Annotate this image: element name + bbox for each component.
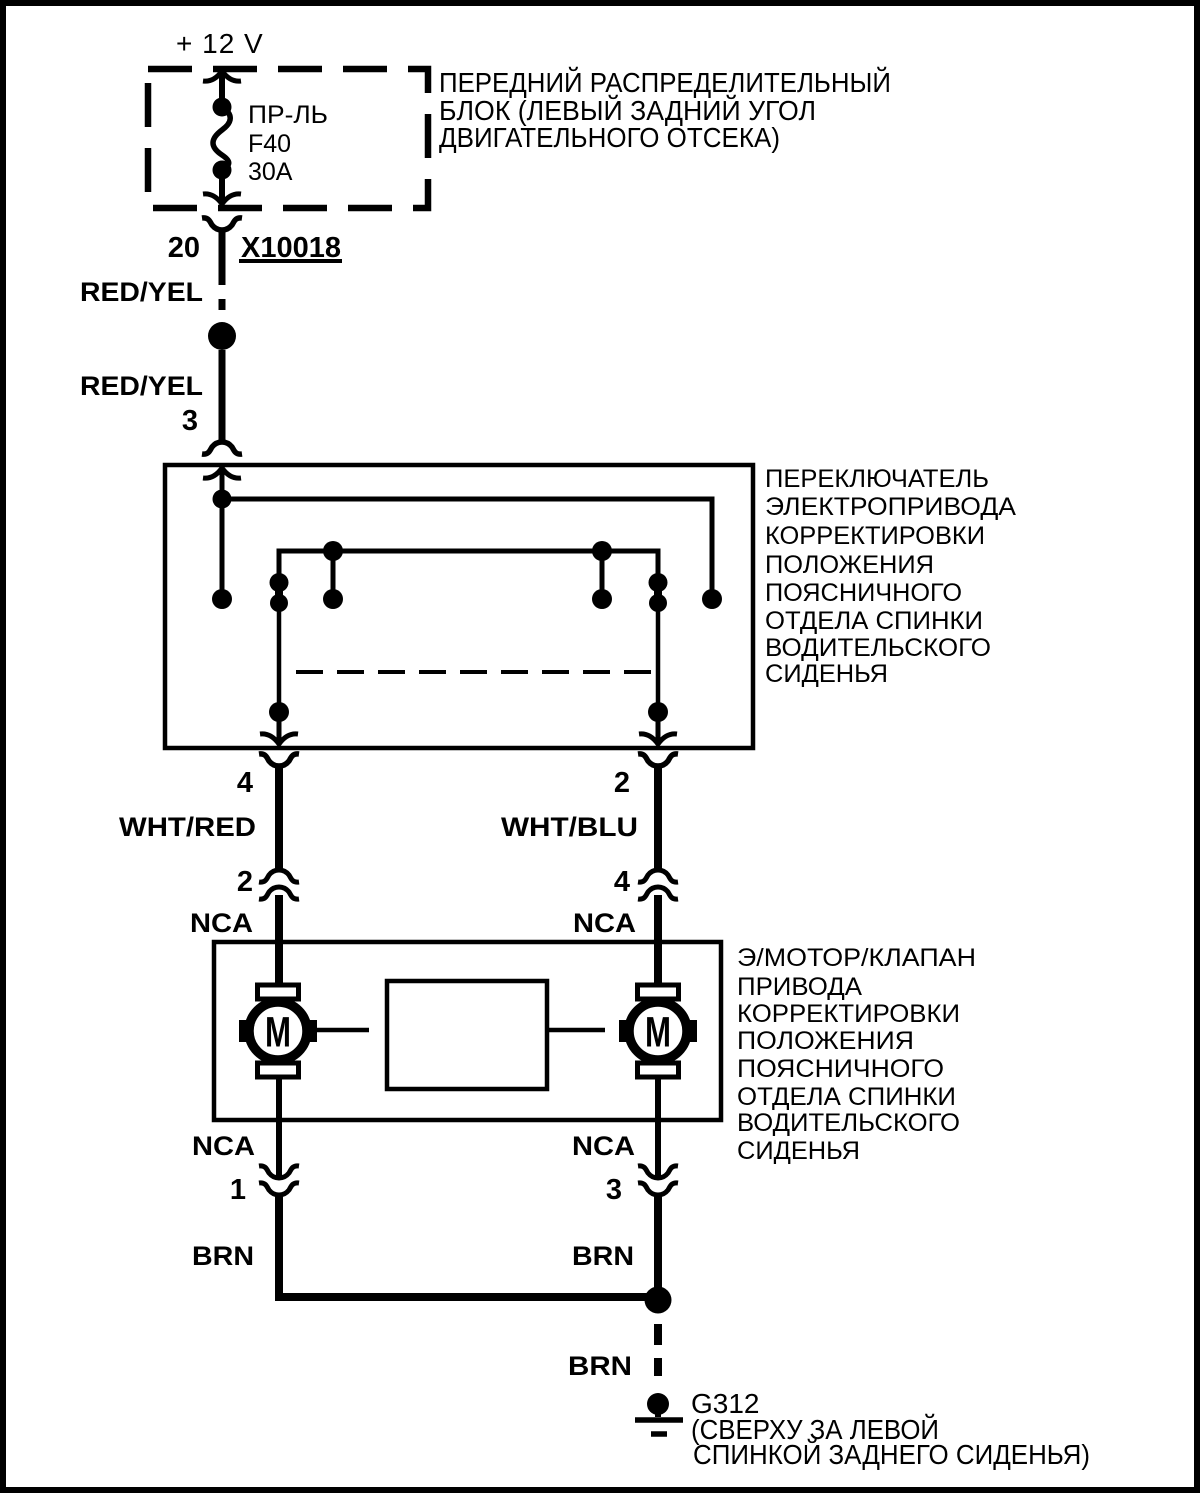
svg-text:2: 2	[237, 866, 253, 898]
contact node left inner	[323, 589, 343, 609]
node on wiper rail left	[323, 541, 343, 561]
wire to motor right	[654, 895, 662, 986]
contact node right inner	[592, 589, 612, 609]
mechanical link dashed	[296, 670, 655, 674]
wire fuse input	[219, 71, 225, 107]
connector cups pin 3	[638, 1166, 678, 1178]
svg-text:RED/YEL: RED/YEL	[80, 371, 203, 401]
motor M2 right	[619, 985, 697, 1077]
svg-text:+ 12 V: + 12 V	[176, 28, 264, 59]
svg-text:ОТДЕЛА СПИНКИ: ОТДЕЛА СПИНКИ	[737, 1083, 956, 1111]
wire valve to motor M2	[547, 1028, 605, 1033]
wire BRN right	[654, 1194, 662, 1290]
svg-text:F40: F40	[248, 130, 291, 158]
svg-text:Э/МОТОР/КЛАПАН: Э/МОТОР/КЛАПАН	[737, 944, 976, 972]
svg-text:BRN: BRN	[192, 1241, 254, 1271]
inline connector left upper half	[259, 870, 299, 882]
inline connector right lower half	[638, 887, 678, 899]
svg-text:WHT/BLU: WHT/BLU	[501, 812, 638, 842]
wire fuse output	[219, 170, 225, 204]
wire switch exit right	[656, 611, 661, 703]
wire motor M2 exit	[655, 1077, 661, 1177]
svg-text:ПЕРЕДНИЙ РАСПРЕДЕЛИТЕЛЬНЫЙ: ПЕРЕДНИЙ РАСПРЕДЕЛИТЕЛЬНЫЙ	[439, 67, 891, 98]
wire wiper rail	[279, 551, 658, 575]
svg-text:ПОЛОЖЕНИЯ: ПОЛОЖЕНИЯ	[765, 551, 934, 579]
wire switch entry	[220, 468, 225, 492]
fuse box (front power distribution box, dashed)	[148, 69, 428, 208]
svg-text:КОРРЕКТИРОВКИ: КОРРЕКТИРОВКИ	[765, 522, 985, 550]
wiper contact right	[649, 573, 668, 612]
svg-text:NCA: NCA	[190, 908, 253, 938]
contact node left outer	[212, 589, 232, 609]
wire contact stub left	[220, 499, 225, 591]
svg-text:RED/YEL: RED/YEL	[80, 277, 203, 307]
wire exit left lower	[277, 720, 282, 743]
wire RED/YEL upper	[219, 230, 226, 310]
inline connector right upper half	[638, 870, 678, 882]
wire stub from rail left	[331, 551, 336, 590]
wiper contact left	[270, 573, 289, 612]
svg-text:3: 3	[182, 405, 198, 437]
node exit left	[269, 702, 289, 722]
connector cup at switch pin 3	[202, 442, 242, 454]
svg-text:ОТДЕЛА СПИНКИ: ОТДЕЛА СПИНКИ	[765, 607, 983, 635]
connector cups pin 1	[259, 1166, 299, 1178]
svg-text:4: 4	[614, 866, 630, 898]
svg-text:СИДЕНЬЯ: СИДЕНЬЯ	[765, 660, 888, 688]
inline connector left lower half	[259, 887, 299, 899]
svg-text:ДВИГАТЕЛЬНОГО ОТСЕКА): ДВИГАТЕЛЬНОГО ОТСЕКА)	[439, 122, 780, 153]
svg-text:NCA: NCA	[572, 1131, 635, 1161]
svg-text:NCA: NCA	[573, 908, 636, 938]
node fuse top	[213, 98, 232, 117]
fuse F40 30A element	[213, 107, 230, 170]
wire WHT/BLU	[654, 766, 662, 872]
wire RED/YEL lower	[219, 350, 226, 443]
arrow down to box bottom	[203, 194, 241, 204]
node on wiper rail right	[592, 541, 612, 561]
node switch input	[213, 490, 232, 509]
svg-text:СПИНКОЙ ЗАДНЕГО СИДЕНЬЯ): СПИНКОЙ ЗАДНЕГО СИДЕНЬЯ)	[693, 1439, 1090, 1470]
connector X10018 cup	[202, 218, 242, 230]
motor box (lumbar motor/valve unit)	[214, 942, 721, 1120]
junction node BRN	[645, 1287, 672, 1314]
wire motor M1 to valve	[317, 1028, 369, 1033]
wire rail top	[222, 499, 712, 591]
valve body rectangle	[387, 981, 547, 1089]
wire WHT/RED	[275, 766, 283, 872]
wire motor M1 exit	[276, 1077, 282, 1177]
arrow up at switch entry pin 3	[203, 468, 241, 478]
junction node splice	[208, 322, 236, 350]
arrow up into box top	[203, 71, 241, 81]
svg-text:ПЕРЕКЛЮЧАТЕЛЬ: ПЕРЕКЛЮЧАТЕЛЬ	[765, 465, 989, 493]
svg-text:2: 2	[614, 767, 630, 799]
svg-text:КОРРЕКТИРОВКИ: КОРРЕКТИРОВКИ	[737, 1000, 960, 1028]
wire switch exit left	[277, 611, 282, 703]
svg-text:BRN: BRN	[568, 1351, 632, 1381]
svg-text:ВОДИТЕЛЬСКОГО: ВОДИТЕЛЬСКОГО	[737, 1109, 960, 1137]
svg-text:30A: 30A	[248, 158, 293, 186]
connector cup below switch pin 4	[259, 754, 299, 766]
svg-text:ПОЛОЖЕНИЯ: ПОЛОЖЕНИЯ	[737, 1027, 914, 1055]
svg-text:ПРИВОДА: ПРИВОДА	[737, 973, 862, 1001]
arrow down at switch exit pin 2	[639, 734, 677, 744]
svg-text:NCA: NCA	[192, 1131, 255, 1161]
switch box (lumbar support switch)	[165, 465, 753, 748]
node fuse bottom	[213, 161, 232, 180]
arrow down at switch exit pin 4	[260, 734, 298, 744]
svg-text:BRN: BRN	[572, 1241, 634, 1271]
svg-text:ВОДИТЕЛЬСКОГО: ВОДИТЕЛЬСКОГО	[765, 634, 991, 662]
wire BRN dashed to ground	[654, 1324, 662, 1376]
svg-text:1: 1	[230, 1174, 246, 1206]
connector cup below switch pin 2	[638, 754, 678, 766]
motor M1 left	[239, 985, 317, 1077]
wire stub from rail right	[600, 551, 605, 590]
wire BRN left	[279, 1194, 647, 1297]
svg-text:4: 4	[237, 767, 253, 799]
contact node right outer	[702, 589, 722, 609]
svg-text:ПОЯСНИЧНОГО: ПОЯСНИЧНОГО	[765, 579, 962, 607]
ground G312	[635, 1393, 683, 1434]
svg-text:ЭЛЕКТРОПРИВОДА: ЭЛЕКТРОПРИВОДА	[765, 493, 1016, 521]
svg-text:3: 3	[606, 1174, 622, 1206]
wire to motor left	[275, 895, 283, 986]
svg-text:20: 20	[168, 232, 200, 264]
svg-text:ПОЯСНИЧНОГО: ПОЯСНИЧНОГО	[737, 1055, 944, 1083]
svg-text:СИДЕНЬЯ: СИДЕНЬЯ	[737, 1137, 860, 1165]
wire exit right lower	[656, 720, 661, 743]
svg-text:WHT/RED: WHT/RED	[119, 812, 256, 842]
svg-text:ПР-ЛЬ: ПР-ЛЬ	[248, 101, 328, 129]
node exit right	[648, 702, 668, 722]
